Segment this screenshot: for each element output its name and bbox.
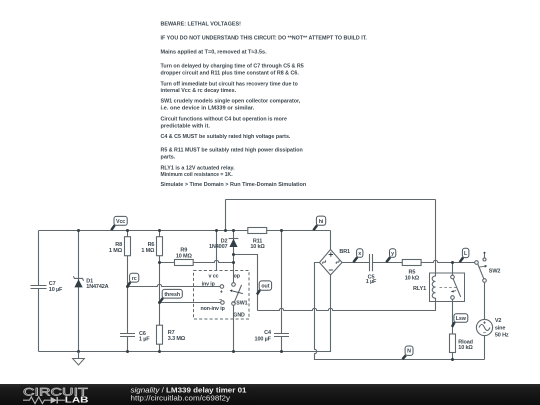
wire ground rail (39, 275, 331, 352)
comparator model SW1 dashed box (194, 271, 250, 320)
resistor Rload (450, 334, 456, 353)
svg-text:parts.: parts. (161, 155, 176, 161)
node flag rc (128, 282, 131, 286)
wire SW1 gnd column (233, 305, 235, 351)
svg-text:rc: rc (132, 276, 137, 282)
svg-text:RLY1 is a 12V actuated relay.: RLY1 is a 12V actuated relay. (161, 165, 235, 171)
svg-text:LAB: LAB (65, 395, 89, 405)
svg-text:v cc: v cc (209, 273, 219, 279)
capacitor C7 (31, 286, 47, 289)
wire C5 to R5 to SW2 with hop (373, 260, 475, 262)
wire R8 column (127, 231, 129, 352)
svg-text:1 µF: 1 µF (366, 279, 377, 285)
wire relay contact top stub (452, 263, 454, 276)
resistor R9 (175, 260, 194, 266)
resistor R5 (402, 260, 421, 266)
capacitor C5 (370, 254, 373, 271)
svg-text:SW1: SW1 (236, 300, 247, 306)
svg-text:sine: sine (495, 325, 505, 331)
svg-text:out: out (261, 284, 269, 290)
svg-text:50 Hz: 50 Hz (495, 333, 509, 339)
svg-text:Vcc: Vcc (116, 219, 125, 225)
svg-text:http://circuitlab.com/c698f2y: http://circuitlab.com/c698f2y (131, 393, 231, 402)
wire D1 column (78, 231, 80, 352)
svg-text:y: y (391, 251, 394, 257)
svg-text:Turn off immediate but circuit: Turn off immediate but circuit has recov… (161, 81, 299, 87)
wire R9 row with hop (160, 260, 234, 262)
svg-text:BR1: BR1 (339, 249, 350, 255)
node flag y (386, 257, 390, 262)
node flag L (460, 258, 463, 263)
svg-text:10 kΩ: 10 kΩ (458, 345, 473, 351)
resistor R11 (248, 228, 267, 234)
svg-text:10 kΩ: 10 kΩ (250, 244, 265, 250)
resistor R6 (157, 237, 163, 256)
wire C4 column (281, 231, 283, 352)
svg-text:Turn on delayed by charging ti: Turn on delayed by charging time of C7 t… (161, 64, 305, 70)
node flag out (257, 290, 260, 294)
node flag hi (313, 225, 317, 230)
wire top rail (226, 199, 436, 201)
ground (78, 352, 80, 359)
svg-text:predictable with it.: predictable with it. (161, 123, 211, 129)
resistor R7 (157, 325, 163, 344)
svg-text:BEWARE: LETHAL VOLTAGES!: BEWARE: LETHAL VOLTAGES! (161, 21, 241, 27)
wire bridge top column (330, 231, 332, 250)
wire Vcc rail (39, 230, 331, 232)
svg-text:internal Vcc & rc decay times.: internal Vcc & rc decay times. (161, 88, 237, 94)
svg-text:10 MΩ: 10 MΩ (176, 254, 193, 260)
switch SW2 (475, 261, 479, 265)
svg-text:+: + (220, 290, 223, 296)
node flag Lsw (452, 322, 455, 327)
svg-text:1 µF: 1 µF (139, 337, 150, 343)
node flag Vcc (111, 225, 115, 230)
svg-text:hi: hi (319, 219, 324, 225)
svg-text:1N4742A: 1N4742A (86, 284, 108, 290)
junction dots (77, 229, 454, 361)
wire relay coil top column (435, 200, 437, 274)
wire bridge to C5 (342, 262, 370, 264)
svg-text:100 µF: 100 µF (255, 336, 272, 342)
wire non-inv input (160, 302, 221, 304)
wire V2 to neutral (484, 336, 486, 360)
svg-text:IF YOU DO NOT UNDERSTAND THIS: IF YOU DO NOT UNDERSTAND THIS CIRCUIT: D… (161, 35, 368, 41)
svg-text:inv ip: inv ip (202, 281, 216, 287)
svg-text:R5 & R11 MUST be suitably rate: R5 & R11 MUST be suitably rated high pow… (161, 148, 304, 154)
svg-text:Lsw: Lsw (456, 316, 467, 322)
svg-text:10 µF: 10 µF (49, 287, 63, 293)
svg-text:Minimum coil resistance = 1K.: Minimum coil resistance = 1K. (161, 172, 233, 178)
svg-text:SW1 crudely models single open: SW1 crudely models single open collector… (161, 99, 301, 105)
svg-text:SW2: SW2 (489, 269, 501, 275)
wire inv input with hop (128, 284, 221, 286)
wire out branch (234, 255, 258, 311)
svg-text:N: N (407, 349, 411, 355)
logo resistor-diode squiggle (23, 397, 51, 404)
diode D2 (229, 238, 239, 240)
svg-text:dropper circuit and R11 plus t: dropper circuit and R11 plus time consta… (161, 70, 300, 76)
relay RLY1 (430, 273, 465, 302)
node flag x (353, 257, 357, 262)
svg-text:C4: C4 (264, 330, 272, 336)
svg-text:1N4007: 1N4007 (209, 244, 227, 250)
wire neutral rail with hop (315, 263, 485, 360)
svg-text:Mains applied at T=0, removed: Mains applied at T=0, removed at T≈3.5s. (161, 50, 267, 56)
svg-text:op: op (234, 273, 241, 279)
wire rail link column (225, 200, 227, 231)
resistor R8 (125, 237, 131, 256)
svg-text:i.e. one device in LM339 or si: i.e. one device in LM339 or similar. (161, 106, 255, 112)
wire relay contact to Rload (452, 299, 454, 359)
wire vcc stub (216, 231, 218, 271)
svg-text:Circuit functions without C4 b: Circuit functions without C4 but operati… (161, 116, 288, 122)
switch SW1 (232, 283, 236, 287)
svg-text:−: − (483, 331, 486, 337)
node flag N (403, 355, 406, 359)
svg-text:Simulate > Time Domain > Run T: Simulate > Time Domain > Run Time-Domain… (161, 182, 307, 188)
svg-text:non-inv ip: non-inv ip (200, 306, 225, 312)
capacitor C6 (120, 334, 135, 337)
wire R6 column (159, 231, 161, 352)
svg-text:1 MΩ: 1 MΩ (141, 248, 155, 254)
wire left column C7 (38, 231, 40, 352)
svg-text:V2: V2 (495, 318, 502, 324)
wire D2 column (233, 231, 235, 283)
svg-text:thresh: thresh (164, 292, 180, 298)
svg-text:x: x (358, 251, 361, 257)
wire SW2 to V2 (484, 282, 486, 319)
zener diode D1 (73, 276, 83, 281)
svg-text:3.3 MΩ: 3.3 MΩ (168, 336, 186, 342)
svg-text:10 kΩ: 10 kΩ (405, 275, 420, 281)
voltage source V2 (476, 319, 492, 335)
node flag thresh (160, 298, 163, 302)
svg-text:GND: GND (233, 313, 245, 319)
svg-text:C4 & C5 MUST be suitably rated: C4 & C5 MUST be suitably rated high volt… (161, 134, 291, 140)
bridge rectifier BR1 (320, 250, 343, 276)
svg-text:RLY1: RLY1 (413, 286, 426, 292)
capacitor C4 (274, 334, 289, 337)
wire out to relay coil with hops (258, 302, 436, 311)
svg-text:+: + (483, 320, 486, 326)
svg-text:1 MΩ: 1 MΩ (109, 248, 123, 254)
